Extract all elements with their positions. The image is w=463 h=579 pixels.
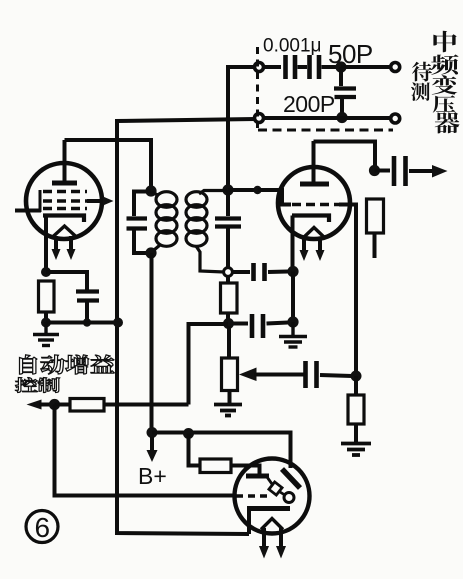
wire cathode down (291, 272, 295, 323)
node L1 top (145, 185, 156, 196)
dashed lead-out horizontal (258, 129, 393, 132)
label text 制 (hollow) (38, 378, 60, 393)
figure number 6 (26, 511, 58, 544)
capacitor C5 tank (secondary) (215, 190, 241, 268)
wire AVC feed left and down (189, 324, 229, 405)
tube V2 heater leads with arrows (300, 237, 325, 261)
tube V3 top electrode bar (246, 474, 269, 479)
wire T1 to C1 (264, 65, 282, 69)
node AGC junction (49, 399, 60, 410)
terminal T1 (IF transformer primary top) (255, 63, 264, 72)
svg-text:B+: B+ (138, 463, 167, 489)
label text 控 (hollow) (15, 378, 37, 393)
wire top-left corner to secondary top (x=228 riser) (228, 67, 255, 185)
node L2 top (222, 184, 233, 195)
ground G1 (33, 322, 59, 346)
tube V3 heater (261, 519, 283, 530)
wire B+ node to detector plate (152, 433, 291, 469)
tube V3 grid row (236, 494, 268, 497)
node ground junction (287, 316, 298, 327)
tube V1 grid rows (43, 192, 87, 209)
label text 益 (hollow) (91, 355, 114, 373)
resistor R7 AGC filter (55, 399, 189, 412)
wire V1 plate to L1 top (65, 140, 152, 188)
label text 压 (433, 95, 456, 112)
tube V1 screen lead with arrow (87, 197, 114, 206)
wire left rail: T3 corner, down, to detector cathode (117, 119, 255, 534)
node grid-leak junction (351, 371, 362, 382)
node N1 (open) (224, 268, 233, 277)
wire node to T2 (341, 65, 391, 69)
node output junction (369, 165, 380, 176)
ground G4 (341, 444, 371, 456)
resistor R6 (189, 434, 260, 475)
tube V1 control grid lead (15, 190, 41, 212)
tube V1 cathode (43, 216, 84, 273)
wire B+ rail (150, 253, 154, 432)
label text 中 (433, 31, 456, 53)
resistor R5 grid leak (348, 376, 364, 442)
tube V3 plate diagonal (282, 469, 300, 488)
tube V2 envelope (278, 167, 350, 239)
label text 增 (hollow) (66, 355, 89, 374)
svg-text:50P: 50P (328, 39, 373, 69)
label text 动 (hollow) (41, 355, 65, 374)
node L1 bottom (145, 247, 156, 258)
svg-text:200P: 200P (283, 91, 335, 117)
tube V3 diode contacts (267, 477, 294, 503)
dashed lead-out vertical (256, 47, 259, 128)
wire V2 grid to AVC divider (339, 205, 356, 377)
resistor R2 plate load (367, 199, 384, 258)
node junction 50P/200P (335, 61, 346, 72)
terminal T4 (391, 114, 400, 123)
capacitor C3 200P (334, 67, 356, 117)
node junction 200P/bottom rail (336, 112, 347, 123)
capacitor C2 50P (310, 55, 320, 79)
wire V2 plate to output node (314, 142, 376, 167)
label text 测 (411, 82, 430, 101)
node R1 bottom junction (41, 318, 51, 328)
capacitor C7 (233, 263, 289, 281)
resistor R1 cathode bias (39, 281, 55, 322)
capacitor C4 cathode bypass (46, 272, 99, 327)
node on left rail (113, 318, 123, 328)
wire AGC node down to detector grid (55, 405, 237, 496)
tube V2 heater (303, 228, 325, 239)
tube V2 plate (300, 141, 329, 184)
tube V1 heater (52, 226, 77, 238)
capacitor C10 tank (primary) (127, 192, 152, 254)
svg-text:0.001μ: 0.001μ (263, 36, 322, 57)
inductor L1 primary winding (151, 192, 177, 253)
capacitor C1 0.001u (286, 55, 296, 79)
capacitor C9 (306, 361, 353, 388)
label text 变 (432, 75, 458, 94)
tube V2 cathode (292, 216, 329, 272)
wire bottom rail T3 to T4 (264, 116, 392, 120)
node detector grid feed junction (183, 428, 194, 439)
terminal T2 (391, 63, 400, 72)
node V1 cathode junction (41, 267, 51, 277)
AGC output arrow (27, 400, 56, 410)
node V2 cathode junction (287, 266, 298, 277)
tube V3 cathode (247, 509, 290, 535)
label text 频 (431, 55, 458, 75)
tube V3 heater leads with arrows (259, 528, 286, 559)
capacitor C6 output coupling (375, 156, 448, 186)
B+ arrow (147, 437, 158, 462)
label text 器 (435, 112, 460, 133)
resistor R4 volume control (222, 326, 238, 403)
inductor L2 secondary winding (186, 191, 227, 273)
node R3 bottom junction (223, 318, 234, 329)
tube V1 envelope (26, 163, 102, 239)
ground G2 (279, 322, 307, 347)
resistor R3 (221, 276, 238, 321)
capacitor C8 (228, 314, 288, 338)
ground G3 (214, 405, 242, 416)
tube V1 heater leads with arrows (52, 236, 76, 260)
wiper arrow of R4 (239, 368, 304, 382)
tube V2 grid row (292, 203, 339, 206)
label text 自 (hollow) (20, 355, 37, 374)
tube V3 envelope (detector socket) (235, 459, 310, 534)
wire cathode net to left rail (46, 321, 117, 325)
wire L2 top to V2 grid (228, 186, 291, 205)
wire C2 to node (322, 65, 342, 69)
label text 待 (412, 62, 432, 82)
wire C1 to C2 (298, 65, 308, 69)
tube V1 plate (52, 140, 77, 183)
terminal T3 (255, 114, 264, 123)
node B+ junction (147, 427, 158, 438)
svg-text:6: 6 (35, 512, 51, 543)
